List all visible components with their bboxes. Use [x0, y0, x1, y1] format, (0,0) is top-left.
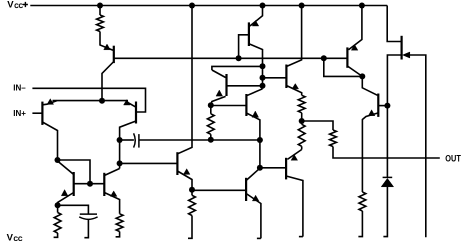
wire C2 top lead — [58, 205, 89, 214]
svg-text:CC: CC — [14, 236, 23, 241]
transistor Q12 base bar — [285, 158, 287, 180]
transistor Q9 base bar — [245, 94, 247, 116]
wire R2 bottom lead — [210, 134, 212, 139]
node Q1 collector junction — [55, 157, 61, 163]
transistor Q13 emitter lead — [349, 6, 362, 50]
label Vcc- (negative supply, cropped) — [7, 232, 23, 241]
wire Q10 base lead — [263, 77, 287, 79]
resistor R7 — [298, 124, 305, 146]
transistor Q2 collector lead — [120, 121, 136, 169]
wire R3 bottom lead — [54, 233, 58, 237]
wire Q15 emitter lead — [410, 55, 426, 237]
transistor Q14 emitter lead — [362, 113, 378, 192]
transistor Q3 base bar — [113, 46, 115, 63]
node Q10 base junction — [260, 75, 266, 81]
transistor Q8 emitter lead — [211, 96, 226, 105]
node Q6 emitter junction — [189, 187, 195, 193]
wire Q14 collector from node — [362, 76, 377, 95]
node rail-Q13 junction — [359, 3, 365, 9]
wire Q12 collector bottom tick — [299, 236, 303, 238]
transistor Q2 base bar — [135, 102, 137, 124]
wire Q11 base lead — [192, 189, 246, 191]
wire elbow to Q13 collector node — [324, 58, 363, 76]
transistor Q1 base bar — [41, 102, 43, 125]
capacitor C1 curved plate — [134, 133, 136, 147]
node Q4 emitter junction — [55, 202, 61, 208]
wire D1 anode lead — [383, 187, 387, 237]
node R2 bottom junction — [208, 137, 214, 143]
capacitor C2 curved plate — [79, 217, 97, 219]
node Q2 collector / C1 junction — [117, 137, 123, 143]
transistor Q10 emitter lead — [286, 86, 301, 96]
svg-text:CC: CC — [14, 3, 23, 10]
wire input emitter bus — [53, 100, 129, 102]
resistor R2 — [207, 114, 214, 135]
transistor Q5 emitter arrow — [110, 191, 117, 197]
wire mirror collector-base tie — [58, 160, 91, 184]
transistor Q9 emitter lead — [246, 113, 260, 140]
wire Q15 left vertical — [387, 55, 400, 177]
resistor R3 — [54, 213, 61, 234]
transistor Q15 emitter arrow — [403, 52, 410, 58]
wire C2 bottom lead — [84, 219, 88, 238]
node C1/Q9 emitter junction — [257, 137, 263, 143]
node Q6 base junction — [117, 160, 123, 166]
transistor Q9 collector lead — [246, 89, 262, 96]
label Vcc+ (positive supply) — [7, 0, 28, 11]
wire R6/R7 node to R8 — [302, 121, 333, 130]
transistor Q4 emitter arrow — [61, 190, 68, 196]
transistor Q12 collector lead — [286, 176, 303, 237]
transistor Q1 emitter lead — [43, 101, 57, 105]
transistor Q15 base bar — [401, 36, 403, 60]
svg-text:OUT: OUT — [445, 154, 461, 164]
svg-text:IN–: IN– — [13, 83, 26, 92]
wire Q6 collector from rail — [178, 6, 192, 154]
node Q11 collector junction — [257, 165, 263, 171]
wire OUT line — [333, 147, 440, 159]
transistor Q7 emitter lead — [250, 6, 263, 27]
node base-bus elbow junction — [321, 55, 327, 61]
transistor Q8 collector lead — [212, 70, 226, 78]
wire IN- lead — [32, 88, 145, 112]
wire mirror base interconnect — [74, 183, 105, 185]
transistor Q1 collector lead — [42, 122, 57, 160]
node Q8 base junction — [260, 83, 266, 89]
wire Q12 base lead — [260, 167, 286, 169]
transistor Q7 base bar — [248, 22, 250, 46]
transistor Q8 emitter arrow — [216, 90, 223, 96]
node Q7 base junction — [236, 55, 242, 61]
transistor Q14 emitter arrow — [368, 110, 375, 116]
capacitor C2 flat plate — [80, 213, 97, 215]
transistor Q4 emitter lead — [58, 193, 74, 206]
transistor Q9 emitter arrow — [252, 111, 259, 117]
transistor Q14 base bar — [377, 94, 379, 117]
wire Q11 emitter bottom tick — [257, 237, 261, 239]
transistor Q13 collector lead — [347, 66, 362, 76]
node Q8 emitter junction — [208, 102, 214, 108]
transistor Q2 emitter lead — [126, 102, 136, 108]
transistor Q4 collector lead — [58, 161, 74, 175]
transistor Q5 collector lead — [104, 169, 119, 176]
wire Q14 base lead — [378, 105, 387, 107]
wire R4 bottom lead — [116, 232, 120, 237]
transistor Q5 emitter lead — [104, 193, 119, 214]
wire C1 left lead — [120, 139, 134, 141]
transistor Q1 emitter arrow — [47, 99, 54, 105]
resistor R1 — [97, 15, 104, 32]
transistor Q6 emitter arrow — [183, 169, 190, 175]
transistor Q7 emitter arrow — [252, 20, 259, 26]
wire Q8 collector bus — [212, 66, 263, 70]
wire R1 top lead — [99, 6, 101, 16]
transistor Q3 collector lead — [102, 62, 114, 101]
node rail-Q7 junction — [260, 3, 266, 9]
wire Q7 base lead — [239, 35, 249, 59]
wire base bus y=58.3 (Q3 base to Q13 base) — [114, 57, 348, 59]
resistor R5 — [189, 195, 196, 215]
transistor Q11 emitter lead — [246, 194, 261, 239]
wire R9 bottom lead — [358, 211, 362, 237]
node mirror base junction — [87, 181, 93, 187]
node rail-Q10 junction — [299, 3, 305, 9]
resistor R8 — [330, 130, 337, 147]
transistor Q12 emitter arrow — [291, 155, 298, 161]
transistor Q3 emitter arrow — [104, 44, 111, 50]
node Q3 collector to input emitters — [99, 98, 105, 104]
wire Q8 base lead — [227, 85, 263, 87]
transistor Q6 emitter lead — [177, 171, 192, 190]
wire R5 top lead — [191, 190, 193, 196]
resistor R6 — [298, 95, 305, 113]
transistor Q13 emitter arrow — [351, 45, 358, 51]
wire R6 to R7 — [301, 113, 303, 125]
node rail-R1 junction — [97, 3, 103, 9]
wire R7 bottom lead — [301, 146, 303, 149]
wire Q9 emitter to Q11 collector node — [259, 140, 261, 168]
wire R5 bottom lead — [188, 216, 192, 239]
transistor Q2 emitter arrow — [124, 100, 131, 105]
transistor Q3 emitter lead — [100, 43, 113, 51]
transistor Q4 base bar — [73, 172, 75, 196]
node Q8 collector junction — [260, 63, 266, 69]
transistor Q5 base bar — [103, 173, 105, 196]
resistor R4 — [116, 214, 123, 232]
wire R3 top lead — [57, 205, 59, 212]
node rail-Q6collector junction — [189, 3, 195, 9]
svg-text:IN+: IN+ — [13, 109, 26, 118]
transistor Q10 collector lead — [286, 6, 301, 67]
node R6/R7 junction — [299, 118, 305, 124]
wire R1 bottom lead — [99, 32, 101, 43]
diode D1 cathode bar — [383, 176, 393, 178]
transistor Q11 collector lead — [246, 168, 260, 180]
transistor Q8 base bar — [225, 74, 227, 96]
transistor Q12 emitter lead — [287, 150, 301, 160]
transistor Q13 base bar — [346, 47, 348, 67]
wire R2 top lead — [210, 105, 212, 114]
transistor Q10 emitter arrow — [292, 84, 299, 89]
transistor Q10 base bar — [285, 65, 287, 89]
wire Q6 base lead — [120, 162, 178, 164]
node Q14 base junction — [384, 103, 390, 109]
wire Q9 base lead — [211, 105, 247, 107]
transistor Q11 base bar — [245, 178, 247, 201]
transistor Q7 collector lead — [249, 44, 263, 89]
transistor Q11 emitter arrow — [252, 195, 259, 201]
resistor R9 — [359, 192, 366, 211]
node Q13 collector junction — [359, 73, 365, 79]
capacitor C1 flat plate — [138, 134, 140, 148]
transistor Q6 base bar — [176, 152, 178, 175]
wire C1 right lead — [139, 139, 260, 141]
diode D1 triangle — [381, 178, 393, 186]
wire IN+ lead — [32, 112, 42, 114]
wire top rail right drop to Q15 — [387, 6, 401, 42]
wire Vcc+ top rail — [30, 5, 387, 7]
